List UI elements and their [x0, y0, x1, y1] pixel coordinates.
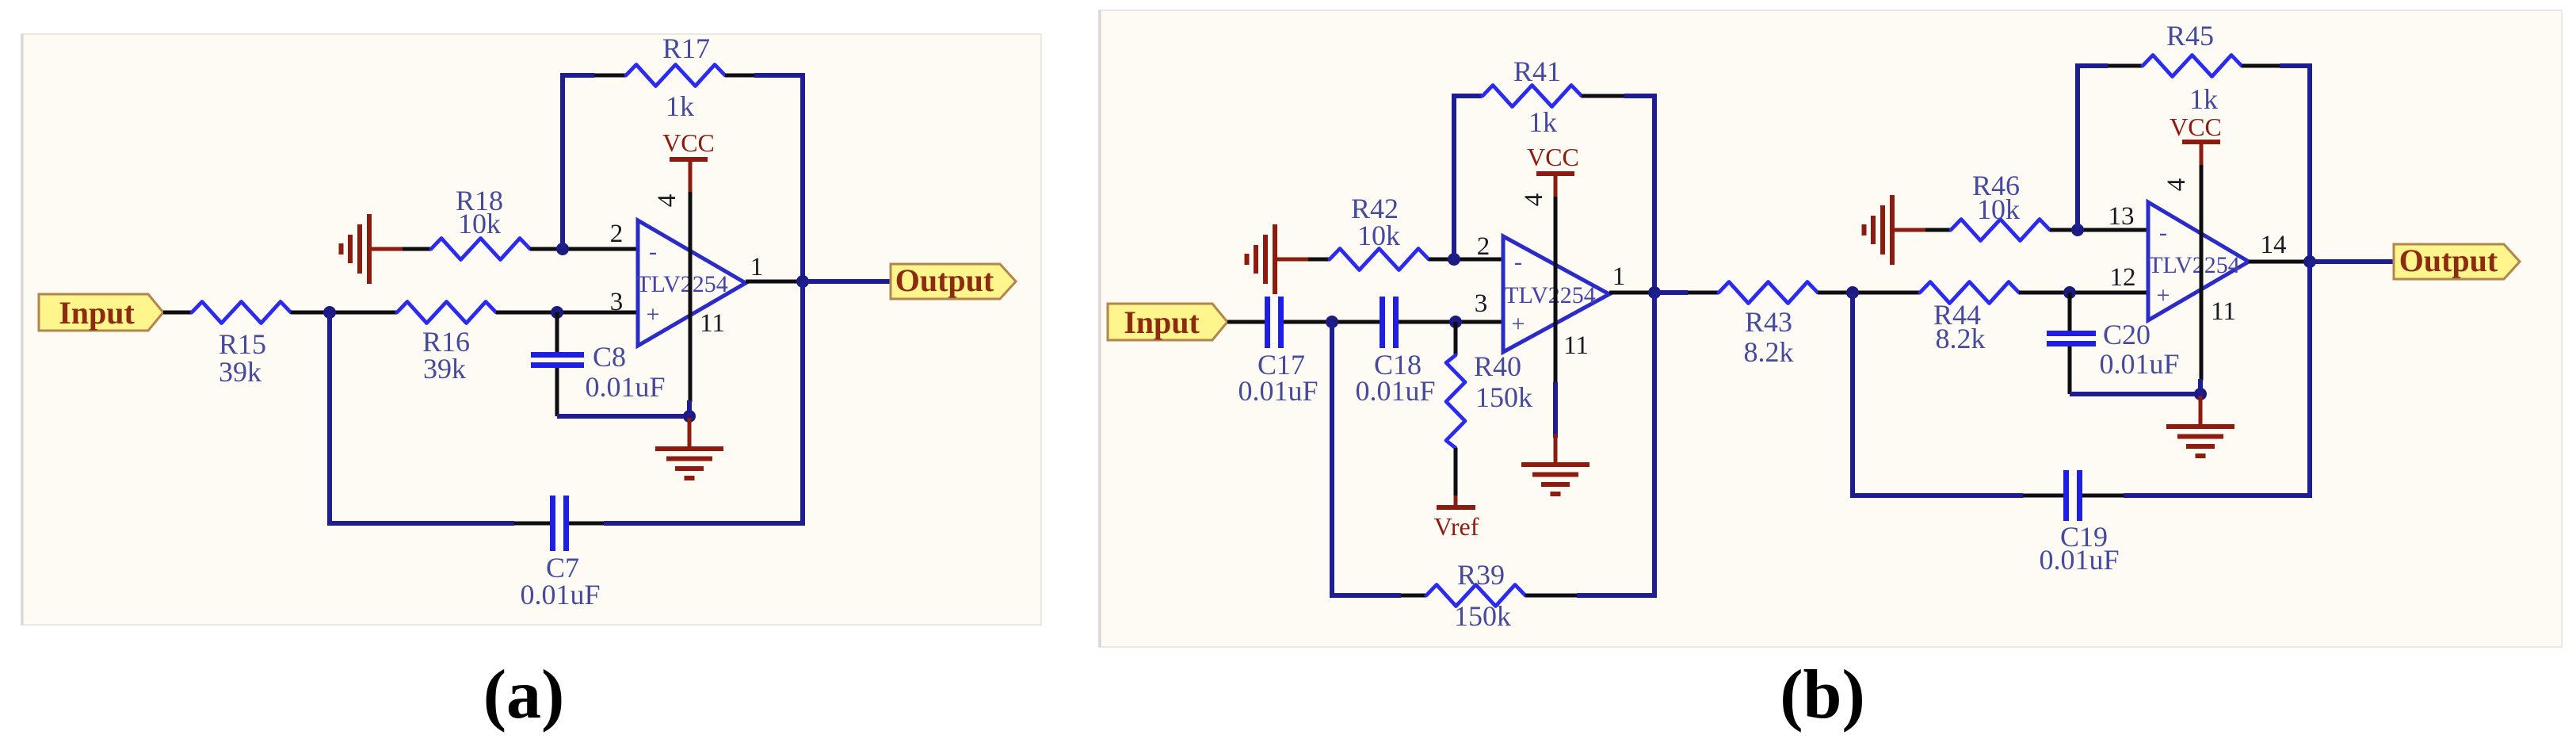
wire R44 to pin 12 [2019, 291, 2148, 295]
resistor R45 [2143, 55, 2242, 77]
wire node F up to R41 [1454, 96, 1482, 259]
capacitor C8 [555, 312, 559, 354]
svg-text:150k: 150k [1454, 600, 1511, 632]
svg-text:8.2k: 8.2k [1744, 336, 1794, 368]
svg-text:0.01uF: 0.01uF [520, 579, 600, 610]
node ground junction [683, 410, 696, 423]
resistor R43 [1719, 282, 1818, 304]
svg-text:(a): (a) [483, 656, 565, 733]
svg-text:1k: 1k [1528, 106, 1557, 138]
svg-text:Output: Output [2399, 243, 2498, 278]
svg-text:VCC: VCC [662, 128, 715, 157]
svg-text:39k: 39k [423, 353, 466, 385]
svg-text:10k: 10k [1357, 220, 1400, 251]
svg-text:39k: 39k [219, 356, 261, 388]
chassis ground flag stage 2 [1864, 195, 1926, 265]
svg-text:10k: 10k [1977, 193, 2020, 225]
op-amp U3 TLV2254 [2148, 202, 2249, 320]
node J junction [2071, 224, 2084, 236]
wire R42 to node F [1429, 258, 1503, 262]
svg-text:10k: 10k [458, 208, 501, 239]
node D junction [1326, 316, 1338, 328]
port Input [39, 294, 163, 331]
capacitor C20 [2068, 293, 2072, 331]
svg-text:11: 11 [1563, 331, 1589, 360]
capacitor C17 [1265, 297, 1270, 348]
Vref supply [1454, 496, 1458, 507]
svg-text:TLV2254: TLV2254 [2148, 252, 2240, 278]
wire node C up to R17 [563, 75, 594, 249]
wire to Output port [803, 279, 892, 284]
svg-text:Output: Output [895, 262, 994, 298]
wire R16 to node B [496, 311, 557, 315]
wire R18 to node C [530, 247, 639, 251]
svg-text:Input: Input [59, 295, 135, 331]
wire to R17 [594, 74, 626, 78]
node K junction [2303, 255, 2316, 268]
wire C18 to pin 3 [1399, 320, 1503, 324]
ground [655, 418, 723, 478]
svg-text:12: 12 [2110, 263, 2136, 292]
output wire pin 1 [1609, 291, 1654, 295]
wire C17 to C18 [1284, 320, 1380, 324]
resistor R41 [1483, 86, 1582, 107]
wire node G to R43 [1654, 290, 1688, 295]
svg-text:11: 11 [2211, 297, 2236, 326]
wire R45 to right vertical [2242, 64, 2280, 68]
svg-text:R43: R43 [1745, 306, 1792, 338]
svg-text:2: 2 [610, 220, 624, 248]
wire node to R16 [330, 311, 397, 315]
svg-text:C20: C20 [2103, 319, 2150, 350]
wire gnd to R18 [403, 247, 431, 251]
svg-text:C8: C8 [593, 341, 626, 373]
svg-text:0.01uF: 0.01uF [1355, 375, 1435, 407]
node E junction [1449, 316, 1462, 328]
svg-text:+: + [647, 301, 660, 327]
op-amp U1 TLV2254 [638, 220, 746, 346]
wire right vertical down to output node [754, 75, 803, 281]
svg-text:8.2k: 8.2k [1936, 323, 1986, 354]
wire R17 to right vertical [725, 74, 754, 78]
wire C7 to right vertical [569, 522, 604, 526]
svg-text:1k: 1k [666, 90, 694, 122]
svg-text:Vref: Vref [1434, 512, 1479, 541]
capacitor C7 [550, 496, 555, 551]
resistor R16 [397, 302, 496, 323]
svg-text:4: 4 [1520, 193, 1548, 207]
wire input to R15 [163, 311, 192, 315]
svg-text:0.01uF: 0.01uF [585, 371, 665, 403]
svg-text:1k: 1k [2189, 83, 2218, 115]
svg-text:0.01uF: 0.01uF [1238, 375, 1318, 407]
wire node B to pin 3 [557, 311, 639, 315]
resistor R42 [1330, 249, 1429, 270]
svg-text:3: 3 [610, 288, 624, 316]
resistor R40 vertical [1454, 322, 1458, 355]
wire gnd to R46 [1925, 228, 1951, 232]
chassis ground flag [342, 214, 403, 284]
node B junction [551, 306, 563, 319]
svg-text:-: - [1514, 249, 1522, 275]
svg-text:TLV2254: TLV2254 [1504, 282, 1596, 308]
feedback R39 loop [1332, 322, 1401, 595]
port Output [891, 264, 1016, 299]
ground [2166, 396, 2234, 456]
wire R43 to node H [1818, 291, 1920, 295]
resistor R39 [1426, 585, 1525, 607]
svg-text:1: 1 [1612, 262, 1626, 291]
svg-text:14: 14 [2261, 231, 2287, 259]
output wire pin 1 [746, 280, 803, 284]
svg-text:TLV2254: TLV2254 [636, 271, 728, 297]
svg-text:1: 1 [750, 253, 764, 281]
chassis ground flag [1247, 224, 1309, 294]
svg-text:3: 3 [1475, 289, 1488, 318]
node C junction [556, 243, 569, 255]
wire input to C17 [1227, 320, 1265, 324]
resistor R18 [431, 239, 530, 260]
svg-text:VCC: VCC [2170, 113, 2222, 141]
wire to Output port [2310, 259, 2395, 264]
svg-text:4: 4 [653, 194, 681, 208]
wire R46 to node J [2050, 228, 2148, 232]
svg-text:R39: R39 [1457, 559, 1505, 591]
svg-text:R45: R45 [2166, 20, 2214, 52]
wire R15 to node [291, 311, 330, 315]
svg-text:-: - [2159, 220, 2167, 246]
output wire pin 14 [2249, 260, 2310, 264]
node F junction [1448, 253, 1460, 266]
svg-text:11: 11 [700, 309, 725, 338]
svg-text:R40: R40 [1474, 350, 1521, 382]
node H junction [1846, 286, 1859, 299]
svg-text:0.01uF: 0.01uF [2039, 544, 2119, 576]
port Input [1108, 304, 1227, 340]
svg-text:R17: R17 [662, 33, 710, 64]
op-amp U2 TLV2254 [1503, 236, 1609, 352]
wire node J up to R45 [2078, 66, 2108, 230]
svg-text:150k: 150k [1475, 381, 1532, 413]
capacitor C19 [2063, 470, 2069, 521]
svg-text:R15: R15 [219, 328, 266, 360]
resistor R44 [1920, 282, 2019, 304]
svg-text:13: 13 [2109, 202, 2135, 231]
svg-text:+: + [1512, 311, 1525, 337]
node I junction [2063, 286, 2076, 299]
port Output [2394, 244, 2520, 279]
svg-text:-: - [649, 239, 657, 265]
pin4/pin11 vertical wire [2200, 165, 2204, 381]
ground [1554, 436, 1558, 465]
svg-text:(b): (b) [1780, 656, 1865, 733]
node A junction [323, 306, 336, 319]
resistor R15 [192, 302, 291, 323]
svg-text:0.01uF: 0.01uF [2099, 348, 2179, 380]
feedback C7 loop: node A down and along bottom [330, 312, 514, 523]
svg-text:VCC: VCC [1527, 143, 1579, 171]
capacitor C18 [1380, 297, 1385, 348]
pin4/pin11 vertical wire [1554, 197, 1558, 384]
wire C8 bottom to ground node [557, 414, 689, 419]
resistor R46 [1951, 220, 2050, 241]
svg-text:+: + [2157, 282, 2170, 308]
resistor R17 [626, 65, 725, 86]
svg-text:Input: Input [1124, 304, 1200, 340]
wire R41 to right vertical [1582, 94, 1624, 98]
node ground junction [2194, 388, 2207, 400]
pin4/pin11 vertical wire [689, 192, 693, 402]
wire gnd to R42 [1308, 258, 1330, 262]
svg-text:R41: R41 [1513, 55, 1561, 87]
svg-text:2: 2 [1477, 232, 1490, 261]
wire C20 bottom to ground node [2070, 392, 2200, 396]
node G junction [1648, 286, 1661, 299]
svg-text:4: 4 [2162, 178, 2191, 192]
feedback C19 loop [1853, 293, 2023, 496]
output node junction [796, 275, 809, 288]
